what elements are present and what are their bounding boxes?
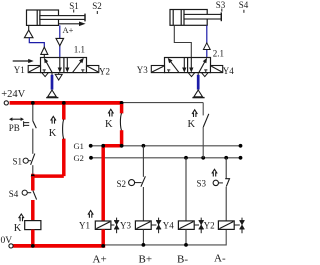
node S2 tick: [96, 11, 98, 14]
junction rail K A: [62, 101, 66, 105]
wire S2 branch upper: [142, 146, 144, 177]
svg-text:B-: B-: [177, 254, 188, 265]
wire +24V rail (red): [10, 101, 122, 105]
wire K contact B lower (red): [120, 130, 124, 146]
label Y1 coil arrow: [88, 211, 93, 218]
svg-text:B+: B+: [139, 254, 153, 265]
wire S1 lower: [32, 165, 34, 174]
svg-text:K: K: [105, 119, 113, 130]
cylinder A piston rod: [40, 14, 85, 22]
svg-text:S4: S4: [9, 189, 19, 199]
junction G2 label: [89, 156, 93, 160]
wire holding link (red): [33, 139, 64, 177]
wire valve 1.1 supply (blue): [51, 73, 53, 90]
air source 2: [192, 90, 204, 98]
wire coil K to 0V (red): [31, 230, 35, 246]
svg-text:2.1: 2.1: [213, 49, 224, 59]
valve 2.1 left box diagonal path: [168, 59, 179, 73]
svg-text:S2: S2: [117, 179, 127, 189]
svg-text:S2: S2: [92, 1, 102, 11]
wire K contact C upper: [202, 103, 204, 116]
valve 2.1 exhaust right: [202, 73, 208, 77]
flow arrow on A rod line (down): [56, 38, 64, 45]
suppressor Y4: [194, 218, 204, 234]
wire G1 energized segment (red): [103, 144, 121, 148]
junction G1 S2: [142, 144, 146, 148]
svg-text:A+: A+: [63, 25, 74, 35]
junction G1 label: [89, 144, 93, 148]
svg-text:Y2: Y2: [99, 67, 110, 77]
junction K coil 0V: [31, 244, 35, 248]
solenoid Y2: [87, 66, 99, 73]
svg-text:Y3: Y3: [137, 65, 148, 75]
label K contact C arrow: [192, 110, 197, 117]
label K contact A arrow: [51, 116, 56, 123]
junction rail PB: [31, 101, 35, 105]
svg-text:S1: S1: [69, 1, 79, 11]
wire cylinder A cap port to valve (blue): [29, 38, 44, 48]
svg-text:S1: S1: [13, 156, 23, 166]
terminal +24V: [4, 101, 8, 105]
switch S3 contact: [213, 179, 229, 187]
wire S2 to Y3: [142, 187, 144, 221]
svg-text:Y2: Y2: [204, 220, 215, 230]
wire S3 to Y2: [225, 187, 227, 221]
air source 1: [46, 90, 58, 98]
solenoid Y1: [28, 66, 40, 73]
svg-text:Y3: Y3: [120, 220, 131, 230]
wire 0V rail extension (thin): [103, 229, 226, 245]
svg-text:K: K: [188, 119, 196, 130]
pushbutton PB actuator: [24, 121, 30, 127]
valve 1.1 left box flow path 1-4: [44, 59, 52, 73]
junction G2 K3: [201, 156, 205, 160]
wire S4 to coil K (red): [31, 200, 35, 221]
junction rail K B: [120, 101, 124, 105]
wire Y4 branch: [185, 158, 187, 221]
valve 1.1 left box flow path 2-exhaust: [58, 58, 61, 72]
wire A cap arrow to valve stub: [43, 54, 45, 57]
solenoid Y4: [211, 66, 223, 73]
junction G2 S3: [224, 156, 228, 160]
wire Y1 to 0V (red): [101, 229, 105, 246]
valve 2.1 right box flow path 4-exhaust: [190, 58, 193, 72]
flow arrow on A cap line (lower): [41, 47, 48, 54]
valve 2.1 left box down path: [183, 58, 186, 72]
wire cylinder A cap port stub: [28, 25, 30, 30]
junction G2 end: [239, 156, 243, 160]
valve 1.1 right box blocked port: [81, 70, 84, 73]
wire 0V rail (red): [13, 244, 105, 248]
coil Y4: [178, 221, 194, 230]
junction Y1 0V: [101, 244, 105, 248]
node S4 tick: [243, 10, 245, 13]
relay contact K A: [63, 119, 64, 139]
solenoid Y3: [151, 66, 164, 73]
wire K contact C lower: [202, 127, 204, 158]
svg-text:+24V: +24V: [1, 89, 25, 100]
valve 2.1 body: [165, 58, 211, 73]
wire cylinder A rod port to valve (blue): [59, 25, 61, 57]
relay contact K B: [120, 113, 121, 130]
flow arrow on B rod line: [203, 43, 210, 50]
valve 2.1 exhaust left: [188, 73, 194, 77]
label K coil arrow: [19, 214, 24, 221]
svg-text:Y4: Y4: [223, 66, 234, 76]
node S1 tick: [73, 10, 75, 13]
wire Y4 to 0V: [185, 229, 187, 245]
svg-text:Y1: Y1: [79, 221, 90, 231]
svg-text:G2: G2: [74, 153, 84, 163]
wire K contact A upper (red): [62, 104, 66, 120]
svg-text:Y1: Y1: [14, 65, 25, 75]
wire S3 branch upper: [225, 158, 227, 179]
svg-text:PB: PB: [9, 123, 20, 133]
cylinder B body: [170, 10, 207, 26]
wire valve 2.1 supply (blue): [197, 73, 199, 90]
wire G1 line: [91, 145, 241, 147]
junction Y4 0V: [184, 243, 188, 247]
valve 1.1 right box down path: [66, 58, 69, 72]
wire Y1 branch (red): [101, 146, 105, 221]
switch S2 contact: [129, 176, 146, 186]
wire PB to S1: [32, 129, 34, 154]
junction G1 Y1: [101, 144, 105, 148]
wire S4 upper (red): [31, 176, 35, 190]
svg-text:G1: G1: [74, 141, 84, 151]
wire Y3 to 0V: [142, 229, 144, 245]
cylinder A body: [27, 10, 59, 25]
coil Y3: [135, 221, 151, 230]
relay contact K C arm: [203, 114, 209, 127]
suppressor Y1: [111, 218, 119, 234]
switch S4 contact: [22, 190, 36, 200]
wire cylinder B cap port to valve: [174, 25, 191, 57]
label K contact B arrow: [108, 109, 113, 116]
junction Y3 0V: [142, 243, 146, 247]
flow arrow on A cap line (upper): [24, 30, 33, 38]
valve 1.1 left box blocked port: [43, 70, 46, 73]
motion arrow A+: [58, 22, 86, 27]
valve 1.1 actuation arrow: [13, 59, 34, 63]
svg-text:Y4: Y4: [163, 220, 174, 230]
coil Y2: [218, 221, 234, 230]
suppressor Y2: [234, 218, 244, 234]
coil Y1: [95, 221, 111, 229]
relay coil K: [25, 221, 41, 230]
wire cylinder B rod port to valve (blue): [206, 25, 208, 57]
junction S1/S4: [31, 174, 35, 178]
valve 2.1 left box blocked port: [167, 70, 170, 73]
suppressor Y3: [151, 218, 161, 234]
svg-text:1.1: 1.1: [74, 45, 85, 55]
valve 1.1 body: [41, 58, 87, 73]
svg-text:K: K: [14, 223, 22, 234]
wire PB branch upper: [32, 104, 34, 121]
terminal 0V: [9, 244, 13, 248]
wire G2 line: [91, 157, 241, 159]
valve 1.1 exhaust right: [55, 73, 62, 80]
node S3 tick: [221, 9, 223, 12]
junction G1 end: [239, 144, 243, 148]
wire K contact B upper (red): [120, 104, 124, 113]
cylinder B piston rod: [184, 12, 221, 21]
valve 1.1 exhaust left: [42, 73, 48, 77]
pushbutton PB manual arrow: [9, 117, 24, 121]
svg-text:A-: A-: [214, 253, 226, 265]
switch S1 contact: [23, 154, 35, 165]
svg-text:S4: S4: [239, 0, 249, 10]
valve 2.1 right box blocked port: [204, 70, 207, 73]
junction G1 KB: [120, 144, 124, 148]
junction G2 Y4: [184, 156, 188, 160]
valve 1.1 right box diagonal path: [73, 59, 84, 73]
svg-text:S3: S3: [216, 0, 226, 10]
pushbutton PB contact arm: [33, 121, 36, 128]
valve 2.1 right box flow path 1-2: [199, 59, 207, 73]
wire +24V rail extension (thin): [122, 102, 204, 104]
svg-text:S3: S3: [197, 179, 207, 189]
svg-text:A+: A+: [93, 254, 107, 265]
svg-text:K: K: [49, 128, 57, 139]
label S3 switch arrow: [212, 169, 217, 176]
